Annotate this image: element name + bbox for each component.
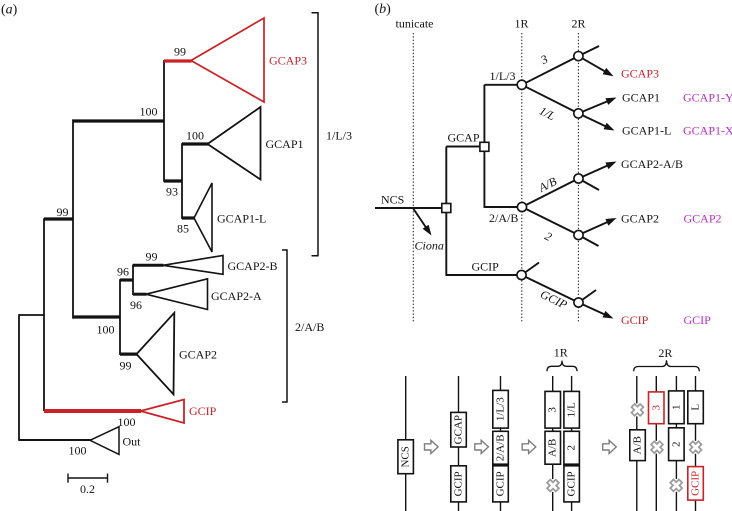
svg-text:GCIP: GCIP (495, 471, 507, 496)
wire root to ingroup (19, 314, 44, 316)
arrow GCAP3 (578, 56, 613, 76)
svg-text:3: 3 (547, 407, 559, 413)
clade triangle Out (90, 427, 119, 455)
wire GCAP horizontal (446, 146, 484, 148)
arrow GCAP1-L (578, 113, 614, 130)
wire 2/A/B horizontal (484, 206, 519, 208)
gene box GCIP chrom3 (493, 466, 509, 502)
svg-text:100: 100 (69, 444, 87, 458)
gene box NCS (398, 440, 414, 474)
brace 1R (547, 361, 577, 372)
svg-text:GCAP2: GCAP2 (179, 348, 217, 362)
svg-text:Out: Out (123, 435, 142, 449)
wire node99 vertical (72, 119, 74, 318)
branch to node 96 (120, 278, 133, 281)
chromosome line 3 (500, 376, 502, 511)
chromosome line 9 (695, 376, 697, 511)
brace 2R (634, 360, 700, 371)
svg-text:GCAP1-L: GCAP1-L (622, 124, 671, 138)
svg-text:1/L: 1/L (537, 104, 558, 124)
svg-text:1/L/3: 1/L/3 (490, 69, 516, 83)
arrow Ciona (413, 209, 431, 236)
clade triangle GCIP (red) (141, 400, 185, 424)
svg-text:93: 93 (166, 185, 178, 199)
svg-text:NCS: NCS (400, 446, 412, 467)
wire lower100 vertical (119, 279, 121, 355)
arrow GCIP (579, 303, 614, 319)
stub lost at node 2 (579, 235, 599, 246)
node circle 1/L (574, 109, 583, 118)
svg-text:GCIP: GCIP (690, 471, 702, 496)
open arrow 3 (522, 440, 536, 453)
svg-text:85: 85 (177, 222, 189, 236)
svg-text:GCAP1: GCAP1 (266, 137, 304, 151)
gene box A/B (2R) (630, 430, 646, 461)
svg-text:2R: 2R (572, 17, 586, 31)
svg-text:GCAP1-X: GCAP1-X (683, 124, 732, 138)
svg-text:L: L (690, 404, 702, 411)
svg-text:99: 99 (174, 45, 186, 59)
branch GCAP2 (120, 353, 137, 356)
lost gene X mark 2R chrom1 (628, 401, 646, 419)
svg-text:(b): (b) (375, 2, 392, 17)
svg-text:GCAP2-A/B: GCAP2-A/B (621, 157, 683, 171)
branch GCAP3 (red) (164, 59, 192, 62)
branch to node 99 (44, 217, 73, 220)
wire root vertical (18, 314, 20, 441)
gene box 1/L (1R) (564, 391, 580, 428)
svg-text:Ciona: Ciona (415, 239, 444, 253)
node square NCS (442, 204, 451, 213)
clade triangle GCAP2 (137, 313, 175, 395)
clade triangle GCAP3 (red) (191, 18, 264, 102)
svg-text:0.2: 0.2 (80, 482, 95, 496)
gene box 3 red (2R) (649, 392, 665, 424)
open arrow 2 (475, 440, 489, 453)
bracket 1/L/3 (312, 13, 319, 256)
svg-text:GCIP: GCIP (684, 313, 712, 327)
arrow GCAP2-A/B (579, 162, 617, 179)
svg-text:GCAP1-L: GCAP1-L (217, 212, 266, 226)
svg-text:GCIP: GCIP (538, 287, 570, 312)
svg-text:GCAP2: GCAP2 (684, 212, 722, 226)
chromosome line 5 (571, 376, 573, 511)
node circle A/B (574, 174, 583, 183)
node square GCAP (480, 142, 489, 151)
stub lost at node A/B (579, 179, 600, 191)
svg-text:GCAP2-B: GCAP2-B (228, 259, 278, 273)
svg-text:GCIP: GCIP (453, 471, 465, 496)
svg-text:GCAP1-Y: GCAP1-Y (683, 91, 732, 105)
svg-text:1R: 1R (554, 346, 568, 360)
branch GCAP1-L (182, 216, 195, 219)
open arrow 4 (603, 440, 617, 453)
node circle 3 (574, 52, 583, 61)
lost gene X mark 2R chrom3 (667, 476, 685, 494)
chromosome line 7 (655, 376, 657, 511)
svg-text:1R: 1R (515, 17, 529, 31)
stub lost at node GCIP-2R (579, 290, 597, 303)
svg-text:GCAP1: GCAP1 (622, 91, 660, 105)
wire GCIP horizontal (446, 274, 519, 276)
stub lost at node GCIP-1R (522, 263, 540, 276)
svg-text:1/L: 1/L (566, 402, 578, 418)
svg-text:100: 100 (186, 129, 204, 143)
wire branch 3 (522, 56, 579, 85)
gene box 2/A/B (493, 431, 509, 464)
wire NCS node vertical (445, 147, 447, 276)
wire node93 vertical (181, 143, 183, 219)
wire node96 vertical (132, 265, 134, 296)
node circle 2 (574, 230, 583, 239)
gene box 1/L/3 (493, 390, 509, 428)
lost gene X mark 1R (544, 476, 562, 494)
branch to upper node 100 (73, 119, 164, 122)
svg-text:2R: 2R (658, 346, 672, 360)
clade triangle GCAP1-L (194, 183, 212, 252)
clade triangle GCAP2-A (146, 279, 208, 310)
clade triangle GCAP2-B (163, 256, 223, 275)
gene box 2 (1R) (564, 431, 580, 464)
svg-text:A/B: A/B (536, 174, 560, 195)
svg-text:99: 99 (120, 359, 132, 373)
node circle 1/L/3 (517, 80, 526, 89)
svg-text:1/L/3: 1/L/3 (326, 129, 352, 143)
node circle 2/A/B (517, 202, 526, 211)
open arrow 1 (425, 440, 439, 453)
node circle GCIP-2R (574, 298, 583, 307)
wire GCAP lineage vertical (483, 85, 485, 208)
svg-text:99: 99 (57, 205, 69, 219)
svg-text:GCAP: GCAP (453, 415, 465, 444)
gene box 2 (2R) (669, 428, 685, 461)
svg-text:GCIP: GCIP (189, 404, 217, 418)
svg-text:1/L/3: 1/L/3 (495, 397, 507, 421)
svg-text:96: 96 (130, 298, 142, 312)
svg-text:A/B: A/B (547, 439, 559, 457)
gene box GCIP (1R) (564, 466, 580, 502)
wire 1/L/3 horizontal (484, 84, 519, 86)
node circle GCIP-1R (517, 270, 526, 279)
chromosome line 8 (675, 376, 677, 511)
svg-text:GCIP: GCIP (472, 260, 500, 274)
wire branch 1/L (522, 85, 579, 114)
branch GCAP2-A (133, 293, 147, 296)
svg-text:2/A/B: 2/A/B (495, 434, 507, 461)
svg-text:2: 2 (542, 229, 554, 244)
chromosome line 1 (405, 376, 407, 511)
svg-text:1: 1 (670, 405, 682, 411)
svg-text:96: 96 (117, 265, 129, 279)
scale bar (68, 474, 108, 483)
gene box 3 (1R) (545, 391, 561, 428)
svg-text:GCIP: GCIP (566, 471, 578, 496)
svg-text:2: 2 (670, 441, 682, 447)
svg-text:tunicate: tunicate (396, 17, 434, 31)
svg-text:GCIP: GCIP (621, 313, 649, 327)
svg-text:GCAP: GCAP (448, 131, 480, 145)
branch GCIP (red) (44, 409, 141, 413)
wire branch 2 (522, 207, 579, 235)
svg-text:2/A/B: 2/A/B (295, 320, 324, 334)
svg-text:GCAP3: GCAP3 (621, 67, 659, 81)
svg-text:A/B: A/B (632, 436, 644, 454)
svg-text:2/A/B: 2/A/B (489, 211, 518, 225)
arrow GCAP2 (579, 218, 617, 235)
chromosome line 2 (458, 376, 460, 511)
svg-text:GCAP2-A: GCAP2-A (211, 289, 262, 303)
gene box GCIP red (2R) (688, 467, 704, 501)
lost gene X mark 2R chrom4 (686, 438, 704, 456)
gene box 1 (2R) (669, 391, 685, 424)
gene box GCIP chrom2 (451, 466, 467, 502)
wire NCS horizontal (375, 207, 444, 209)
svg-text:3: 3 (537, 52, 550, 68)
gene box GCAP (451, 412, 467, 447)
svg-text:NCS: NCS (381, 193, 404, 207)
dotted line 1R (521, 33, 523, 323)
svg-text:2: 2 (566, 445, 578, 451)
svg-text:GCAP3: GCAP3 (269, 54, 307, 68)
wire branch GCIP diagonal (522, 275, 579, 303)
svg-text:GCAP2: GCAP2 (621, 212, 659, 226)
dotted line 2R (577, 33, 579, 323)
dotted line tunicate (412, 33, 414, 323)
branch to outgroup (19, 439, 91, 441)
chromosome line 4 (552, 376, 554, 511)
wire branch A/B (522, 179, 579, 208)
svg-text:3: 3 (650, 405, 662, 411)
lost gene X mark 2R chrom2 (648, 438, 666, 456)
gene box A/B (1R) (545, 431, 561, 464)
branch GCAP1 (182, 142, 208, 145)
chromosome line 6 (636, 376, 638, 511)
stub lost at node 3 (578, 46, 599, 56)
svg-text:99: 99 (146, 250, 158, 264)
bracket 2/A/B (282, 250, 287, 402)
branch to lower node 100 (73, 315, 120, 318)
branch to node 93 (164, 179, 182, 182)
svg-text:100: 100 (97, 323, 115, 337)
svg-text:(a): (a) (1, 3, 18, 18)
wire ingroup vertical (43, 218, 45, 411)
svg-text:100: 100 (118, 415, 136, 429)
wire upper100 vertical (163, 60, 165, 182)
arrow GCAP1 (578, 98, 616, 114)
gene box L (2R) (688, 391, 704, 424)
clade triangle GCAP1 (208, 107, 261, 180)
branch GCAP2-B (133, 264, 164, 267)
svg-text:100: 100 (140, 105, 158, 119)
